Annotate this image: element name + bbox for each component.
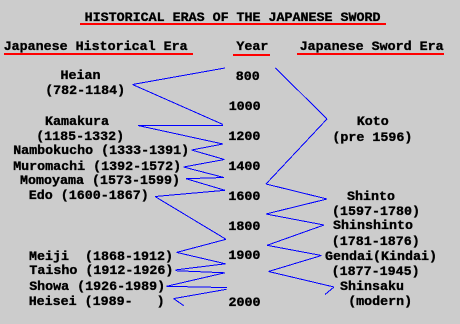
line year 800 to Koto (276, 68, 328, 119)
sword era Shinto (347, 191, 395, 204)
era label Heisei (29, 296, 165, 309)
sword era Shinsaku dates (348, 296, 412, 309)
line Shinto to year 1780 (266, 199, 327, 214)
line Gendai to year 1945 (269, 256, 322, 272)
line Muromachi to year 1572 (184, 167, 225, 178)
line year 1597 to Shinto (266, 184, 327, 199)
line Heisei to year 1989 (174, 289, 227, 298)
line Meiji to year 1912 (177, 252, 226, 263)
header underline right (297, 53, 444, 55)
era label Muromachi (13, 161, 181, 174)
header underline left (4, 53, 193, 55)
line Muromachi to year 1392 (184, 160, 225, 168)
era label Kamakura dates (36, 131, 124, 144)
year 1200 (228, 131, 260, 144)
line Showa to year 1989 (167, 286, 228, 287)
line Momoyama to year 1573 (186, 178, 224, 179)
year 1800 (228, 221, 260, 234)
sword era Gendai dates (332, 266, 420, 279)
era label Kamakura (45, 116, 109, 129)
era label Nambokucho (13, 145, 189, 158)
line Taisho to year 1926 (176, 271, 225, 273)
line Edo to year 1867 (155, 197, 226, 240)
line Meiji to year 1868 (177, 239, 226, 252)
year 1400 (228, 161, 260, 174)
era label Taisho (29, 265, 173, 278)
sword era Shinto dates (332, 206, 420, 219)
line year 1945 to Shinsaku (269, 272, 335, 288)
sword era Shinsaku (340, 281, 404, 294)
line Shinshinto to year 1876 (267, 225, 324, 245)
line Edo to year 1600 (155, 190, 225, 196)
column header: Japanese Sword Era (300, 41, 444, 54)
year 1600 (228, 191, 260, 204)
line Kamakura to year 1332 (138, 126, 223, 145)
era label Heian dates (45, 85, 125, 98)
title: HISTORICAL ERAS OF THE JAPANESE SWORD (85, 12, 381, 25)
column header: Japanese Historical Era (4, 41, 188, 54)
era label Meiji (29, 251, 173, 264)
sword era Shinshinto dates (332, 236, 420, 249)
era label Momoyama (20, 175, 180, 188)
line Heisei present stub (174, 299, 184, 306)
year 800 (236, 71, 260, 84)
line Momoyama to year 1599 (186, 179, 225, 191)
line Nambokucho to year 1391 (192, 150, 225, 160)
title red underline (80, 23, 386, 25)
sword era Gendai (325, 251, 437, 264)
era label Showa (29, 281, 165, 294)
line Heian to year 782 (133, 68, 226, 85)
line Kamakura to year 1185 (138, 124, 223, 126)
year 1000 (229, 101, 261, 114)
sword era Shinshinto (333, 220, 413, 233)
sword era Koto (357, 116, 389, 129)
year 2000 (229, 297, 261, 310)
sword era Koto dates (332, 132, 412, 145)
line Koto to year 1596 (266, 119, 327, 184)
line Nambokucho to year 1333 (192, 144, 224, 150)
era label Heian (61, 70, 101, 83)
line Heian to year 1184 (133, 85, 224, 125)
line Shinsaku present stub (325, 287, 334, 295)
line year 1781 to Shinshinto (266, 214, 324, 225)
line Showa to year 1926 (167, 273, 225, 287)
era label Edo (29, 190, 149, 203)
header underline year (233, 54, 270, 56)
line year 1877 to Gendai (267, 245, 322, 255)
column header: Year (236, 41, 268, 54)
year 1900 (228, 250, 260, 263)
line Taisho to year 1912 (176, 264, 226, 270)
